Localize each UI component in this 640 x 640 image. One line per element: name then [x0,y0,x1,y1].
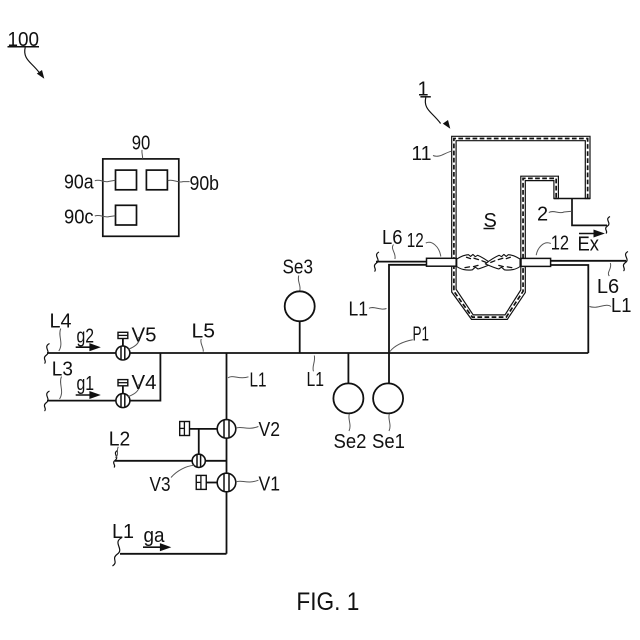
svg-text:12: 12 [407,230,424,252]
svg-text:L1: L1 [250,369,267,391]
svg-text:Ex: Ex [578,234,600,256]
svg-text:P1: P1 [413,324,430,346]
svg-text:L1: L1 [349,299,369,321]
svg-text:V4: V4 [132,372,157,394]
svg-text:g2: g2 [77,325,95,347]
svg-text:L2: L2 [109,429,131,451]
svg-text:90c: 90c [64,207,94,229]
svg-text:V1: V1 [259,474,281,496]
svg-text:L6: L6 [382,227,403,249]
svg-text:90a: 90a [64,172,94,194]
svg-text:L1: L1 [307,369,325,391]
svg-text:2: 2 [537,204,548,226]
svg-text:L1: L1 [112,521,134,543]
svg-text:L5: L5 [192,320,216,342]
svg-text:11: 11 [412,143,432,165]
svg-text:Se2: Se2 [334,431,367,453]
svg-text:ga: ga [144,525,166,547]
svg-text:90: 90 [132,133,151,155]
svg-text:Se3: Se3 [283,257,314,279]
svg-text:FIG. 1: FIG. 1 [296,588,359,616]
svg-text:90b: 90b [190,173,220,195]
svg-text:L4: L4 [50,310,72,332]
svg-text:Se1: Se1 [372,431,405,453]
svg-text:L3: L3 [52,358,73,380]
svg-text:V5: V5 [132,325,157,347]
svg-text:g1: g1 [77,373,95,395]
svg-text:L1: L1 [611,295,631,317]
svg-text:V2: V2 [259,419,281,441]
svg-text:V3: V3 [150,474,171,496]
svg-text:12: 12 [551,233,569,255]
